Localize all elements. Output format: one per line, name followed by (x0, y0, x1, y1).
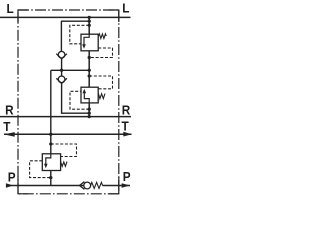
wire: CV1 to junction line (61, 59, 63, 70)
port label R left (5, 103, 14, 118)
arrow P left (6, 183, 13, 187)
relief valve RV2 pilot line right (89, 76, 112, 89)
junction dot R line (88, 115, 91, 118)
svg-text:P: P (8, 170, 16, 185)
junction dot L line (88, 16, 91, 19)
relief valve RV2 internal flow arrow (84, 93, 89, 103)
wire: middle junction horizontal (51, 69, 89, 71)
wire: T port line (4, 133, 132, 135)
port label P left (8, 170, 16, 185)
relief valve RV1 pilot line left (from L) (70, 25, 89, 44)
relief valve RV3 body (42, 154, 60, 171)
relief valve RV1 body (81, 34, 98, 51)
wire: P port line (6, 185, 84, 187)
arrow P right (122, 183, 131, 187)
arrow T left (4, 132, 15, 137)
port label T right (122, 119, 130, 134)
junction dot RV3 pilot (49, 142, 52, 145)
check valve CV2 ball (58, 76, 65, 83)
relief valve RV3 pilot line right (51, 144, 77, 157)
junction dot CV2 branch to main line (88, 112, 91, 115)
relief valve RV2 pilot line left (70, 91, 89, 109)
port label T left (3, 119, 11, 134)
svg-text:L: L (122, 1, 130, 16)
relief valve RV2 spring (98, 94, 105, 99)
svg-text:T: T (122, 119, 130, 134)
junction dot pilot top (88, 24, 91, 27)
port label P right (123, 169, 131, 184)
check valve CV2 seat (56, 78, 67, 83)
wire: main vertical from L line to RV1 (88, 17, 90, 34)
junction dot T line (49, 133, 52, 136)
wire: check line down to CV1 (60, 21, 62, 51)
wire: CV2 upper stub (61, 70, 63, 76)
junction dot RV1 pilot (88, 56, 91, 59)
junction dot RV2 drain (88, 108, 91, 111)
port label L right (122, 1, 130, 16)
wire: CV2 down to R line (62, 84, 90, 114)
wire: R port line (0, 116, 131, 118)
relief valve RV1 spring (98, 34, 106, 39)
junction dot CV1 branch (60, 69, 63, 72)
relief valve RV1 pilot line right (89, 48, 112, 58)
relief valve RV3 drain line left (30, 161, 51, 178)
check valve CV1 ball (58, 51, 65, 58)
wire: main vertical RV2 to R line (88, 103, 90, 117)
svg-text:P: P (123, 169, 131, 184)
junction dot RV3 drain (49, 176, 52, 179)
junction dot branch line (88, 20, 91, 23)
relief valve RV2 body (81, 87, 98, 103)
wire: RV3 down to P line (50, 171, 52, 186)
check valve CV3 spring (91, 182, 103, 188)
relief valve RV1 internal flow arrow (84, 34, 89, 45)
junction dot middle branch (88, 69, 91, 72)
check valve CV3 seat (80, 182, 85, 190)
wire: upper-left branch horizontal (61, 20, 89, 22)
junction dot RV2 pilot (88, 74, 91, 77)
port label L left (7, 2, 15, 17)
wire: main vertical RV1 to RV2 (88, 51, 90, 87)
check valve CV1 seat (56, 54, 67, 59)
svg-text:L: L (7, 2, 15, 17)
wire: P port line right part (103, 185, 130, 187)
svg-text:T: T (3, 119, 11, 134)
relief valve RV3 spring (61, 162, 67, 167)
wire: left drop from junction to RV3 (50, 70, 52, 154)
wire: L port line (0, 16, 131, 18)
svg-text:R: R (5, 103, 14, 118)
check valve CV3 ball (84, 182, 91, 189)
enclosure boundary (chain line) (18, 10, 119, 194)
svg-text:R: R (122, 103, 131, 118)
relief valve RV3 internal flow arrow (46, 154, 51, 164)
port label R right (122, 103, 131, 118)
arrow T right (123, 132, 132, 137)
